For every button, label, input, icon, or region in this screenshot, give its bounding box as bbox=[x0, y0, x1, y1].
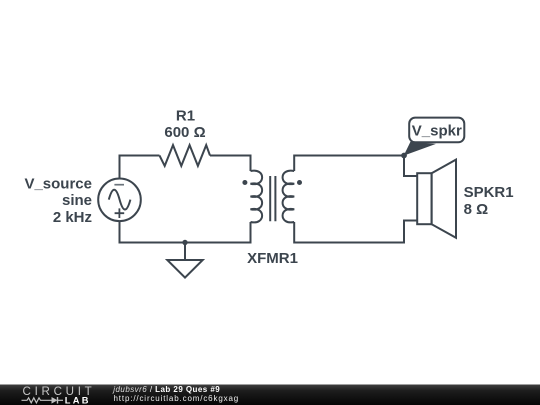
flag pointer wedge bbox=[404, 142, 436, 156]
minus sign bbox=[114, 184, 124, 186]
node dot V_spkr bbox=[401, 153, 407, 159]
transformer XFMR1 primary winding bbox=[251, 171, 263, 223]
logo diode bbox=[52, 397, 58, 404]
wire: secondary top to node bbox=[294, 156, 404, 172]
junction dot ground node bbox=[182, 240, 187, 245]
voltage source V_source bbox=[98, 179, 141, 222]
wire: resistor to transformer primary bbox=[210, 156, 251, 172]
plus sign bbox=[115, 208, 125, 218]
logo resistor zigzag bbox=[22, 398, 52, 403]
svg-text:2 kHz: 2 kHz bbox=[53, 209, 92, 226]
svg-text:XFMR1: XFMR1 bbox=[247, 250, 298, 267]
ground bbox=[167, 260, 202, 278]
sine symbol bbox=[109, 190, 131, 210]
phase dot secondary bbox=[297, 180, 302, 185]
svg-text:http://circuitlab.com/c6kgxag: http://circuitlab.com/c6kgxag bbox=[114, 394, 240, 403]
svg-text:LAB: LAB bbox=[65, 395, 91, 405]
speaker cone bbox=[432, 160, 456, 238]
flag V_spkr box bbox=[409, 118, 464, 143]
wire top-left: left loop top side bbox=[120, 156, 160, 179]
svg-text:jdubsvr6 / Lab 29 Ques #9: jdubsvr6 / Lab 29 Ques #9 bbox=[112, 385, 220, 394]
wire: primary bottom to source bottom bbox=[120, 221, 251, 243]
svg-text:8 Ω: 8 Ω bbox=[464, 201, 489, 218]
phase dot primary bbox=[242, 180, 247, 185]
wire: ground stem bbox=[184, 243, 186, 261]
svg-text:SPKR1: SPKR1 bbox=[464, 184, 514, 201]
speaker SPKR1 body bbox=[417, 173, 431, 224]
wire: secondary bottom to speaker bottom terminal bbox=[294, 221, 417, 243]
footer bar bbox=[0, 385, 540, 405]
svg-text:R1: R1 bbox=[176, 107, 195, 124]
transformer core bbox=[270, 176, 275, 221]
transformer XFMR1 secondary winding bbox=[283, 171, 295, 223]
svg-text:600 Ω: 600 Ω bbox=[164, 124, 205, 141]
resistor R1 bbox=[160, 145, 211, 166]
wire: node down to speaker top terminal bbox=[404, 156, 417, 177]
svg-text:sine: sine bbox=[62, 192, 92, 209]
svg-text:V_source: V_source bbox=[24, 175, 92, 192]
svg-text:V_spkr: V_spkr bbox=[412, 122, 462, 139]
